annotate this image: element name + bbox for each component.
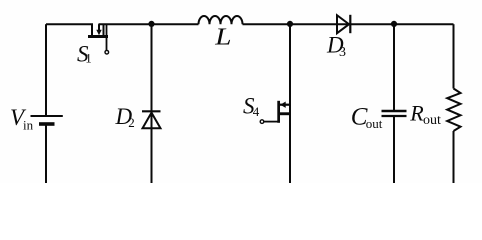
label Vin	[10, 105, 34, 133]
svg-text:2: 2	[128, 115, 135, 130]
diode D2	[142, 111, 161, 128]
wire S4 branch	[289, 24, 291, 183]
svg-text:1: 1	[85, 51, 92, 66]
svg-text:out: out	[366, 116, 383, 131]
wire right rail lower	[453, 131, 455, 183]
label D3	[326, 33, 346, 61]
diode D3	[337, 15, 350, 33]
wire top rail left section	[46, 23, 93, 25]
label D2	[115, 104, 135, 130]
transistor switch S1	[88, 24, 109, 54]
resistor Rout zigzag	[447, 89, 460, 132]
node junction top of Cout branch	[391, 21, 397, 27]
voltage source Vin battery plates	[31, 116, 63, 124]
svg-text:L: L	[214, 23, 231, 50]
capacitor Cout plates	[382, 111, 407, 116]
wire D2 branch	[151, 24, 153, 183]
wire top rail right section	[243, 23, 454, 25]
wire right rail upper	[453, 24, 455, 88]
wire top rail middle section	[99, 23, 199, 25]
svg-text:out: out	[423, 113, 441, 128]
node junction top of S4 branch	[287, 21, 293, 27]
wire Cout branch upper	[393, 24, 395, 110]
label Rout	[409, 100, 441, 128]
node junction top of D2 branch	[148, 21, 154, 27]
svg-text:in: in	[23, 118, 34, 133]
wire left rail upper	[45, 24, 47, 115]
svg-text:4: 4	[253, 104, 260, 119]
label S4	[243, 93, 260, 119]
inductor L	[199, 16, 243, 24]
wire Cout branch lower	[393, 117, 395, 184]
wire left rail lower	[45, 125, 47, 183]
transistor switch S4	[260, 101, 291, 124]
svg-text:3: 3	[339, 45, 346, 60]
label L	[214, 23, 231, 50]
label S1	[77, 41, 92, 66]
label Cout	[351, 104, 383, 131]
